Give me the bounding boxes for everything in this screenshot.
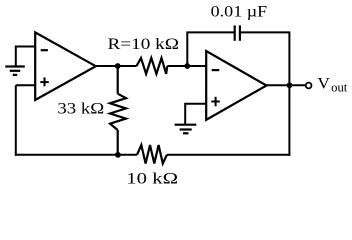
U2 plus sign: [211, 97, 220, 107]
wire node C to capacitor: [187, 32, 234, 66]
resistor R1 10 kOhm: [137, 58, 168, 74]
svg-text:R=10 kΩ: R=10 kΩ: [108, 36, 180, 53]
junction node B: [115, 152, 121, 158]
wire U1 inverting input: [16, 47, 36, 67]
wire U1 output: [96, 65, 137, 67]
ground G1: [5, 67, 25, 75]
wire R1 to node C: [167, 65, 206, 67]
svg-text:0.01 µF: 0.01 µF: [211, 3, 268, 20]
resistor R3 10 kOhm bottom: [137, 145, 167, 164]
wire U1 non-inverting input: [16, 84, 36, 86]
node D: [287, 82, 293, 88]
wire U2 output: [267, 84, 306, 86]
svg-text:V: V: [317, 76, 330, 93]
wire left rail: [15, 85, 17, 156]
op-amp U2: [206, 51, 266, 120]
capacitor C1: [235, 25, 240, 40]
wire right rail feedback: [288, 85, 290, 156]
wire capacitor to output node: [240, 32, 290, 85]
wire U2 inverting input: [187, 65, 206, 67]
op-amp U1: [35, 32, 96, 100]
ground G2: [175, 125, 197, 134]
node A: [115, 63, 121, 69]
resistor R2 33 kOhm: [110, 66, 126, 155]
wire bottom rail right: [167, 154, 291, 156]
wire U2 non-inverting input: [185, 104, 206, 125]
U1 plus sign: [40, 77, 49, 86]
svg-text:33 kΩ: 33 kΩ: [57, 100, 104, 117]
terminal Vout: [306, 83, 312, 89]
wire bottom rail left: [15, 154, 137, 156]
node C: [184, 63, 190, 69]
svg-text:10 kΩ: 10 kΩ: [126, 170, 178, 187]
svg-text:out: out: [331, 80, 348, 95]
U2 minus sign: [212, 69, 220, 71]
U1 minus sign: [41, 49, 48, 51]
